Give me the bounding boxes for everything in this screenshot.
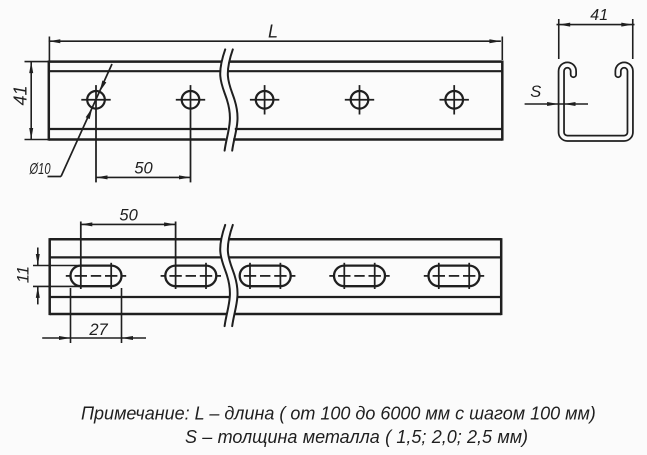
svg-text:Ø10: Ø10 (29, 161, 51, 178)
hole 5 (445, 91, 463, 109)
slot 5 (429, 266, 480, 287)
slot 2 (165, 266, 216, 287)
dimension 27 (42, 288, 146, 343)
bottom view bar outline (50, 238, 502, 315)
slot 1 (71, 266, 122, 287)
dimension 11 (33, 248, 81, 305)
hole 1 (87, 91, 105, 109)
hole 2 (182, 91, 200, 109)
section view channel (561, 65, 630, 138)
svg-text:11: 11 (15, 266, 33, 283)
svg-text:41: 41 (590, 7, 608, 24)
hole 4 (351, 91, 369, 109)
svg-text:S: S (530, 83, 541, 101)
svg-text:41: 41 (11, 85, 31, 105)
top view channel bar outline (49, 61, 503, 141)
svg-text:S – толщина металла ( 1,5; 2,0: S – толщина металла ( 1,5; 2,0; 2,5 мм) (185, 427, 528, 447)
svg-text:Примечание: L – длина ( от 100: Примечание: L – длина ( от 100 до 6000 м… (81, 404, 596, 424)
slot 3 (240, 266, 291, 287)
break lines top view (220, 49, 237, 150)
leader diameter 10 (48, 64, 113, 177)
hole 3 (256, 91, 274, 109)
dimension 41 section (557, 19, 635, 59)
svg-text:50: 50 (119, 207, 138, 225)
break lines bottom view (220, 225, 237, 326)
svg-text:27: 27 (88, 321, 108, 339)
dimension L (49, 37, 503, 61)
svg-text:50: 50 (134, 160, 153, 178)
svg-text:L: L (268, 21, 278, 41)
dimension 50 top view (96, 176, 191, 178)
dimension 50 bottom view (81, 223, 176, 225)
thickness S leader (525, 103, 588, 105)
slot 4 (334, 266, 385, 287)
dimension 41 left (25, 62, 49, 140)
